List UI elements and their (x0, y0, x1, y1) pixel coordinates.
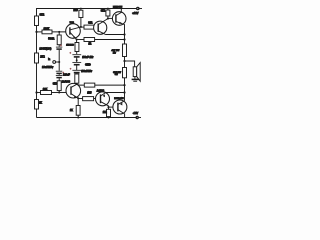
wire (76, 58, 78, 62)
svg-text:1K: 1K (70, 109, 73, 112)
resistor R21 (77, 98, 79, 105)
wire (76, 83, 78, 84)
node R21 rail junction (77, 117, 79, 119)
transistor T2 (94, 21, 107, 34)
resistor R10 (75, 74, 79, 83)
resistor R18 (37, 92, 41, 94)
wire to rail (95, 84, 125, 86)
wire (58, 50, 60, 71)
wire to T2 base (94, 26, 98, 28)
transistor T5 (113, 100, 127, 114)
wire to T4 base (94, 98, 101, 100)
svg-text:+12V: +12V (132, 11, 138, 15)
svg-text:10uF/25v: 10uF/25v (42, 65, 54, 69)
resistor R2 (42, 30, 52, 34)
wire rail (124, 35, 126, 45)
node wire1 and wire2 junctions (123, 33, 125, 35)
wire bottom rail (37, 117, 136, 119)
wire (58, 74, 60, 75)
node Q1 coll (80, 26, 82, 28)
svg-text:GND: GND (85, 64, 91, 67)
node T4 coll (107, 106, 109, 108)
diode D3 (72, 69, 81, 71)
T3 collector (116, 9, 121, 16)
wire base Q1 (37, 31, 43, 33)
resistor R8 (77, 39, 84, 41)
node T2 coll (107, 18, 109, 20)
plus mark (69, 52, 71, 54)
ground (134, 77, 136, 79)
wire to Q3 base (52, 92, 67, 94)
node B (35, 91, 37, 93)
terminal -12V (136, 117, 141, 119)
T2 collector (98, 19, 108, 25)
T3 emitter (116, 21, 125, 34)
svg-text:100K(1%): 100K(1%) (39, 46, 51, 50)
T4 collector (101, 102, 109, 108)
svg-text:100nF/25v: 100nF/25v (81, 71, 93, 73)
resistor R14 (123, 68, 127, 78)
svg-text:1R: 1R (88, 44, 91, 46)
svg-text:100K: 100K (44, 28, 50, 31)
svg-text:1K2: 1K2 (103, 112, 108, 114)
node Q3 coll (76, 83, 78, 85)
plus mark (62, 72, 64, 75)
wire to rail (95, 39, 125, 41)
resistor R20 (35, 100, 39, 110)
wire (52, 31, 70, 33)
wire (76, 52, 78, 55)
svg-text:100nF 1Kv: 100nF 1Kv (82, 57, 94, 59)
svg-text:82R: 82R (88, 22, 93, 24)
node speaker (123, 60, 125, 62)
svg-text:8K2: 8K2 (101, 10, 106, 13)
transistor T3 (112, 12, 126, 26)
wire (76, 65, 78, 70)
diode D1 (72, 54, 81, 56)
capacitor C5 (58, 45, 60, 47)
speaker (125, 61, 135, 67)
resistor R11 (77, 83, 85, 86)
T5 collector (118, 110, 125, 118)
svg-text:1R5: 1R5 (87, 92, 92, 94)
svg-text:560R: 560R (48, 38, 54, 41)
svg-text:MJE2955: MJE2955 (114, 98, 124, 100)
svg-text:2K2: 2K2 (40, 56, 45, 59)
plus mark (60, 44, 62, 46)
Q3 collector (71, 84, 77, 87)
Q3 emitter (71, 94, 78, 99)
svg-text:2SA983: 2SA983 (62, 81, 71, 84)
wire T5 base (109, 106, 114, 108)
svg-text:1N4148: 1N4148 (66, 44, 74, 46)
svg-text:In: In (48, 58, 51, 61)
node C (58, 91, 60, 93)
capacitor C7 (56, 75, 63, 77)
svg-text:8K2: 8K2 (40, 12, 45, 16)
wire in stub (56, 61, 60, 63)
node Q3 emitter (77, 97, 79, 99)
node in (58, 61, 60, 63)
T4 emitter (101, 93, 125, 97)
wire left rail lower (36, 31, 38, 118)
terminal In (53, 61, 56, 64)
node chain (76, 59, 78, 61)
wire T3 base (108, 17, 113, 19)
svg-text:3K3: 3K3 (53, 83, 58, 86)
node A (35, 31, 37, 33)
plus mark (70, 68, 72, 70)
svg-text:AC128: AC128 (97, 89, 105, 92)
resistor R5 (80, 9, 82, 11)
resistor R9 (76, 40, 78, 43)
T2 emitter (98, 31, 105, 35)
transistor T4 (96, 92, 110, 106)
Q1 emitter (70, 33, 76, 40)
wire top rail (37, 9, 137, 32)
diode D2 (72, 61, 81, 63)
svg-text:-12V: -12V (133, 111, 139, 115)
resistor R1 (35, 16, 39, 26)
svg-text:220uF: 220uF (63, 74, 70, 77)
capacitor C6 (56, 70, 63, 72)
Q1 collector (70, 27, 81, 30)
resistor R12 (78, 98, 82, 100)
node Q1 emitter (76, 38, 78, 40)
transistor Q1 (66, 24, 81, 39)
node rail dots (80, 8, 82, 10)
resistor R13 (123, 44, 127, 57)
T5 emitter (118, 101, 125, 105)
svg-text:1K0: 1K0 (73, 9, 78, 12)
wire T2 emitter to rail (106, 34, 125, 36)
wire (76, 72, 78, 75)
svg-text:10K: 10K (43, 87, 48, 91)
wire (58, 78, 60, 81)
resistor R16 (35, 53, 39, 63)
resistor R3 (58, 32, 60, 35)
node R3 top (58, 31, 60, 33)
transistor Q3 (66, 83, 81, 98)
resistor R15 (108, 107, 110, 109)
terminal +12V (136, 8, 142, 10)
wire R17 bottom (58, 91, 60, 93)
svg-text:1K: 1K (39, 102, 42, 105)
resistor R17 (57, 81, 61, 91)
resistor R7 (107, 9, 109, 11)
svg-text:5W: 5W (115, 74, 118, 76)
svg-text:2W: 2W (113, 53, 116, 55)
resistor R6 (81, 26, 84, 28)
